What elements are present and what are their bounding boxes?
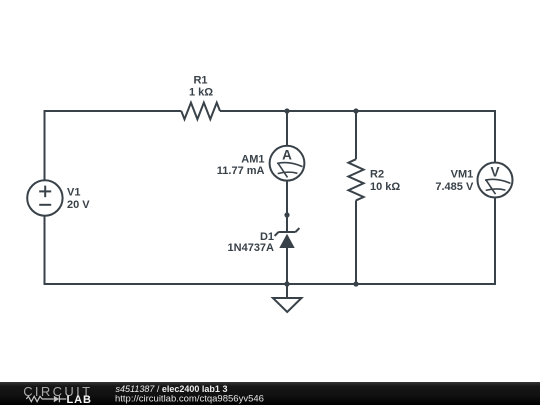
ground <box>273 284 302 312</box>
svg-text:1 kΩ: 1 kΩ <box>189 87 213 99</box>
svg-text:20 V: 20 V <box>67 199 90 211</box>
svg-text:11.77 mA: 11.77 mA <box>217 165 265 177</box>
svg-text:R2: R2 <box>370 169 384 181</box>
node junction top R2 branch <box>353 108 358 113</box>
node junction AM1-D1 <box>284 212 289 217</box>
svg-text:V: V <box>490 164 499 179</box>
wire middle branch between AM1 and D1 <box>286 180 288 232</box>
wire R2 branch upper <box>355 111 357 159</box>
svg-text:10 kΩ: 10 kΩ <box>370 181 400 193</box>
ammeter AM1 <box>270 146 305 181</box>
footer logo resistor-diode symbol <box>26 396 66 403</box>
wire middle branch lower <box>286 248 288 284</box>
svg-text:VM1: VM1 <box>451 168 474 180</box>
node junction top AM1 branch <box>284 108 289 113</box>
wire R2 branch lower <box>355 200 357 284</box>
node junction bottom R2 branch <box>353 281 358 286</box>
wire top-right loop: R1 to VM1 <box>220 111 495 163</box>
zener diode D1 <box>275 228 300 248</box>
wire bottom loop: V1 to VM1 <box>45 198 496 284</box>
svg-text:1N4737A: 1N4737A <box>228 242 275 254</box>
svg-text:7.485 V: 7.485 V <box>435 181 474 193</box>
svg-text:AM1: AM1 <box>241 153 264 165</box>
node junction bottom ground <box>284 281 289 286</box>
voltmeter VM1 <box>478 163 513 198</box>
wire top-left loop: R1 to V1 <box>45 111 182 180</box>
resistor R2 <box>348 159 363 200</box>
svg-text:R1: R1 <box>193 74 207 86</box>
svg-text:s4511387 / elec2400 lab1 3: s4511387 / elec2400 lab1 3 <box>116 384 228 394</box>
resistor R1 <box>181 103 220 120</box>
svg-text:V1: V1 <box>67 187 80 199</box>
svg-text:A: A <box>282 148 292 163</box>
wire middle branch upper <box>286 111 288 146</box>
svg-text:http://circuitlab.com/ctqa9856: http://circuitlab.com/ctqa9856yv546 <box>115 394 264 405</box>
svg-text:LAB: LAB <box>67 394 92 405</box>
voltage source V1 <box>27 180 62 215</box>
